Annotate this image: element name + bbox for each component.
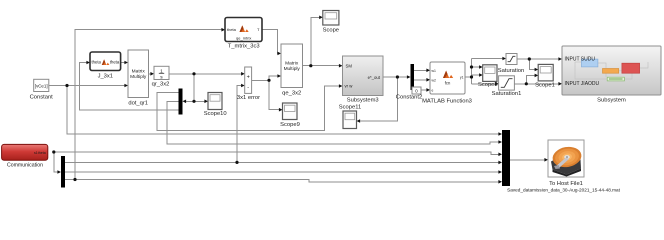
wire: branch down from qr line to bar1 and Scope10	[186, 74, 205, 102]
wire: Constant2 output to MATLAB Function3 in3	[421, 89, 427, 91]
junction error-minus-tap	[235, 161, 238, 164]
wire: junction down into Scope9	[269, 80, 279, 109]
wire: branch up into Scope1 in2	[526, 75, 535, 83]
wire: Constant output to dot_qr1 input2	[49, 85, 125, 87]
demux (Communication)	[61, 156, 65, 188]
arrowhead into Subsystem INPUT SUDU	[558, 57, 562, 61]
arrowhead into Scope1 in1	[535, 68, 539, 72]
svg-text:Scope: Scope	[323, 28, 339, 34]
svg-text:Scope10: Scope10	[204, 111, 227, 117]
junction qr-line	[192, 72, 195, 75]
block: J_3x1 MATLAB function	[90, 52, 121, 79]
junction constant-branch	[65, 84, 68, 87]
svg-text:J_3x1: J_3x1	[98, 73, 113, 79]
arrowhead mux in6	[498, 180, 502, 184]
svg-text:+: +	[247, 74, 250, 80]
wire: branch from Constant line down to big mux input1	[67, 86, 499, 135]
svg-text:fcn: fcn	[445, 81, 451, 86]
thumbnail wires	[575, 62, 648, 79]
wire: junction up into qe_3x2 input2	[269, 76, 277, 80]
block: Subsystem3	[343, 56, 384, 104]
arrowhead into sum plus	[241, 72, 245, 76]
junction qr-scope10	[192, 100, 195, 103]
demux bar1 (flipped, right input)	[179, 89, 183, 115]
arrowhead into To Host File1	[544, 158, 548, 162]
svg-text:Scope1: Scope1	[535, 83, 555, 89]
wire: bar1 out2 left-down to big mux input2	[167, 102, 499, 145]
svg-text:w2: w2	[432, 79, 436, 83]
wire: big mux output to To Host File1	[510, 159, 545, 161]
block: To Host File1 (hard disk icon)	[507, 140, 621, 193]
svg-text:Matrix: Matrix	[132, 69, 146, 75]
block: Constant2	[396, 87, 422, 101]
block: Scope11 (flipped, label above)	[339, 105, 361, 129]
wire: bar1 out3 left, up to J_3x1 input	[80, 63, 179, 111]
thumbnail blue block	[581, 59, 598, 67]
wire: demux out3 long to big mux input6	[65, 180, 499, 182]
wire: Subsystem3 output to small demux	[383, 76, 407, 78]
wire: T output down to qe_3x2 input1	[262, 30, 278, 54]
wire: demux out1 long to big mux input4	[65, 161, 499, 163]
svg-text:-: -	[247, 85, 249, 91]
arrowhead into Subsystem INPUT JIAODU	[558, 82, 562, 86]
block: Scope10	[204, 93, 227, 118]
wire: bar1 out1 left-down-right to Subsystem3 vr w input	[157, 86, 339, 131]
arrowhead into dot_qr1 in2	[124, 84, 128, 88]
junction qe-output	[309, 64, 312, 67]
wire: dot_qr1 output to integrator	[149, 73, 151, 75]
svg-text:qr_3x2: qr_3x2	[152, 82, 170, 88]
junction saturation-output	[528, 57, 531, 60]
arrowhead into Scope11 (left-pointing)	[357, 119, 361, 123]
arrowhead into small demux	[407, 75, 411, 79]
arrowhead into Scope8 in2	[479, 73, 483, 77]
svg-text:Scope8: Scope8	[478, 82, 498, 88]
arrowhead into integrator	[150, 72, 154, 76]
block: Saturation1	[492, 76, 522, 97]
svg-text:theta: theta	[92, 60, 102, 65]
wire: J_3x1 output to dot_qr1 input1	[121, 62, 125, 64]
svg-text:3x1 error: 3x1 error	[237, 95, 260, 101]
block: Scope1	[535, 64, 555, 88]
block: Subsystem (INPUT SUDU / INPUT JIAODU)	[562, 46, 661, 104]
thumbnail red block	[622, 63, 640, 73]
arrowhead into Subsystem3 vr w	[339, 84, 343, 88]
block: Constant [vCe1]	[30, 79, 54, 100]
arrowhead into Scope10	[204, 100, 208, 104]
arrowhead mux in2	[498, 140, 502, 144]
arrowhead into Subsystem3 SM	[339, 64, 343, 68]
wire: Saturation1 output to Subsystem INPUT JIAODU	[514, 83, 558, 85]
svg-text:Saved_datamission_data_30-Aug-: Saved_datamission_data_30-Aug-2021_15-44…	[507, 188, 621, 193]
svg-text:Subsystem3: Subsystem3	[347, 98, 379, 104]
svg-text:qe_mtrix: qe_mtrix	[236, 36, 251, 41]
wire: Communication down into small demux	[54, 152, 58, 172]
block: sum 3x1 error	[237, 67, 260, 101]
arrowhead into qe_3x2 in2	[277, 74, 281, 78]
svg-text:Constant2: Constant2	[396, 95, 422, 101]
svg-text:Matrix: Matrix	[285, 61, 299, 67]
thumbnail orange block	[603, 69, 619, 74]
wire: Communication output long line to big mux input3	[54, 152, 499, 154]
arrowhead into Scope1 in2	[535, 74, 539, 78]
junction e-out	[396, 75, 399, 78]
thumbnail green block	[607, 77, 624, 81]
svg-text:y1: y1	[460, 76, 464, 80]
arrowhead into Saturation1	[495, 82, 499, 86]
wire: branch down from e*_out to Scope11 (flipped input)	[360, 77, 397, 121]
arrowhead into qe_3x2 in1	[277, 52, 281, 56]
arrowhead into dot_qr1 in1	[124, 61, 128, 65]
junction communication-output	[52, 150, 55, 153]
svg-text:Constant: Constant	[30, 95, 54, 101]
svg-text:Scope9: Scope9	[280, 122, 300, 128]
arrowhead into Scope8 in1	[479, 65, 483, 69]
wire: qe_3x2 output to Subsystem3 SM input	[303, 65, 340, 67]
wire: small demux out2 to MATLAB Function3 in2	[414, 79, 427, 81]
small demux before MATLAB Function3	[411, 64, 415, 90]
svg-text:Saturation: Saturation	[498, 68, 524, 74]
arrowhead mux in4	[498, 161, 502, 165]
junction saturation1-output	[525, 82, 528, 85]
junction sum-output	[267, 79, 270, 82]
svg-text:SM: SM	[346, 64, 353, 69]
arrowheads	[57, 15, 562, 183]
svg-text:INPUT JIAODU: INPUT JIAODU	[565, 81, 600, 87]
wire: MATLAB Function3 output	[465, 76, 472, 78]
wire: stub into Scope8 in1	[472, 66, 480, 68]
block: Scope9	[280, 103, 300, 128]
junction theta-feedback	[73, 178, 76, 181]
block: Scope8	[478, 65, 498, 88]
junction scope8-in1	[470, 65, 473, 68]
big logging mux	[502, 130, 510, 186]
wire: demux out2 long to big mux input5	[65, 171, 499, 173]
svg-text:T_mtrix_3c3: T_mtrix_3c3	[228, 44, 260, 50]
svg-text:Saturation1: Saturation1	[492, 91, 522, 97]
arrowhead into Scope	[319, 15, 323, 19]
arrowhead into fcn in3	[426, 88, 430, 92]
junction fcn-output	[470, 75, 473, 78]
block: Communication (red)	[2, 144, 48, 168]
svg-text:Multiply: Multiply	[284, 66, 301, 72]
block: dot_qr1 Matrix Multiply	[128, 50, 149, 107]
svg-text:MATLAB Function3: MATLAB Function3	[422, 98, 472, 104]
svg-text:Subsystem: Subsystem	[597, 98, 626, 104]
block: Saturation	[498, 54, 524, 74]
svg-text:INPUT SUDU: INPUT SUDU	[565, 57, 596, 63]
svg-text:dot_qr1: dot_qr1	[128, 101, 148, 107]
wire: vertical splitter after fcn	[471, 59, 473, 84]
wire: up branch to Saturation	[472, 58, 503, 60]
wire: branch up from qe line to top Scope	[311, 17, 320, 65]
svg-text:vr w: vr w	[345, 84, 354, 89]
wire: down branch to Saturation1	[472, 83, 496, 85]
block: qe_3x2 Matrix Multiply	[281, 44, 303, 97]
wire: branch up from demux out1 line to sum minus input	[237, 86, 241, 163]
block: T_mtrix_3c3 MATLAB function	[225, 18, 262, 50]
arrowhead mux in3	[498, 153, 502, 157]
arrowhead into J_3x1	[86, 61, 90, 65]
svg-text:s1theta: s1theta	[34, 151, 46, 155]
arrowhead into Saturation	[502, 57, 506, 61]
svg-text:[vCe1]: [vCe1]	[35, 84, 48, 89]
arrowhead into Scope9	[279, 108, 283, 112]
wire: theta feedback up to T_mtrix input	[75, 30, 222, 180]
arrowhead mux in1	[498, 132, 502, 136]
block: Scope (top)	[323, 11, 339, 34]
wire: small demux out1 to MATLAB Function3 in1	[414, 69, 427, 71]
svg-text:Multiply: Multiply	[130, 74, 147, 80]
arrowhead into fcn in2	[426, 78, 430, 82]
arrowhead into sum minus	[241, 84, 245, 88]
svg-text:w1: w1	[432, 69, 436, 73]
arrowhead into bar1 (left-pointing)	[183, 100, 187, 104]
svg-text:e: e	[432, 89, 434, 93]
arrowhead into T_mtrix	[221, 28, 225, 32]
svg-text:theta: theta	[227, 27, 237, 32]
wire: integrator output to sum plus input	[169, 73, 241, 75]
svg-text:qe_3x2: qe_3x2	[282, 91, 301, 97]
wire: branch down into Scope1 in1	[529, 59, 535, 70]
svg-text:theta: theta	[110, 60, 120, 65]
svg-text:Scope11: Scope11	[339, 105, 361, 111]
wire: Saturation output to Subsystem INPUT SUDU	[517, 58, 559, 60]
svg-text:To Host File1: To Host File1	[549, 181, 583, 187]
block: MATLAB Function3	[422, 62, 472, 104]
svg-text:Communication: Communication	[7, 163, 43, 169]
arrowhead into fcn in1	[426, 69, 430, 73]
wire: stub into Scope8 in2	[472, 74, 480, 76]
svg-text:e*_out: e*_out	[368, 75, 381, 80]
arrowhead into demux	[57, 170, 61, 174]
block: qr_3x2 integrator 1/s	[152, 66, 170, 87]
arrowhead mux in5	[498, 170, 502, 174]
wire: sum output to junction	[252, 79, 269, 81]
